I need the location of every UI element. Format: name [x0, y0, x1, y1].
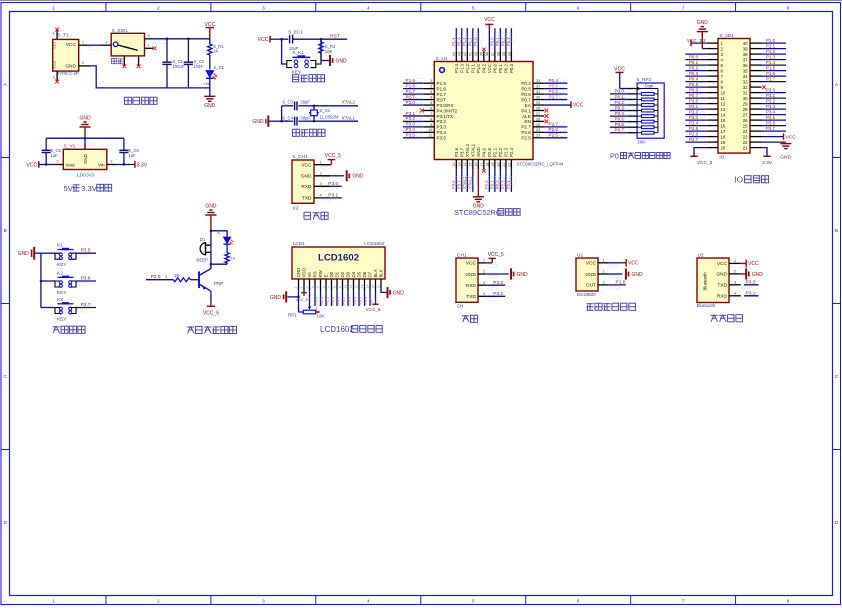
svg-text:3.3V: 3.3V	[81, 184, 98, 193]
caption 电源电路	[125, 97, 158, 104]
wire net P0.3 (pull-up)	[610, 105, 630, 110]
svg-text:P3.4: P3.4	[406, 127, 416, 132]
svg-text:4: 4	[734, 291, 736, 295]
SW1 bottom pins (no connect)	[122, 56, 140, 68]
wire LCD D5 net P0.5	[359, 290, 363, 306]
svg-text:XTAL2: XTAL2	[465, 143, 470, 157]
svg-text:P3.0: P3.0	[493, 280, 503, 286]
svg-text:ALE: ALE	[522, 114, 531, 119]
LCD pin 1	[294, 279, 299, 290]
wire P2.0 net	[146, 274, 173, 280]
svg-text:6: 6	[577, 599, 580, 604]
wire net P3.6 (JD1)	[762, 121, 787, 126]
svg-text:P0.3: P0.3	[348, 297, 352, 304]
svg-text:P2.0: P2.0	[484, 180, 489, 189]
svg-text:S_C4: S_C4	[282, 115, 293, 120]
svg-text:3: 3	[430, 90, 432, 94]
svg-text:TXD: TXD	[466, 294, 476, 300]
JD1 pin 7	[707, 75, 718, 77]
BT pin 4	[729, 291, 750, 300]
wire net P2.6 (JD1)	[685, 132, 707, 137]
svg-text:XTAL1: XTAL1	[467, 176, 472, 189]
wire net P3.6 (U1 bottom)	[451, 169, 460, 192]
svg-text:33: 33	[743, 79, 748, 84]
U1 pin 33	[533, 79, 544, 83]
wire SW1.3 to VCC rail	[153, 39, 210, 44]
LCD pin 7	[327, 279, 332, 290]
svg-text:P1.3: P1.3	[460, 63, 465, 73]
wire crystal left leg	[281, 106, 283, 122]
svg-text:14: 14	[463, 163, 467, 167]
U1 pin 12	[452, 160, 456, 170]
svg-text:2: 2	[483, 270, 485, 274]
svg-text:LCD1602: LCD1602	[318, 253, 359, 264]
capacitor S_EC1 10uF	[282, 29, 321, 51]
svg-text:P3.2: P3.2	[406, 116, 416, 121]
svg-text:21: 21	[502, 163, 506, 167]
JD1 pin 25	[750, 125, 762, 127]
caption LCD1602显示模块	[320, 325, 383, 334]
svg-text:XTAL2: XTAL2	[342, 100, 356, 105]
svg-text:D5: D5	[357, 271, 362, 277]
svg-text:P0.2: P0.2	[342, 297, 346, 304]
svg-text:RS: RS	[313, 271, 318, 277]
svg-text:3: 3	[147, 34, 149, 38]
svg-text:15: 15	[371, 284, 375, 288]
svg-text:P2.4: P2.4	[506, 180, 511, 189]
svg-text:P1.6: P1.6	[766, 71, 776, 76]
LCD pin 13	[360, 279, 365, 290]
wire net P1.1 (U1 top)	[467, 28, 476, 51]
U1 pin 25	[533, 123, 544, 127]
svg-text:1: 1	[147, 44, 149, 48]
wire key bus vertical	[40, 253, 42, 307]
svg-text:P2.7: P2.7	[549, 122, 559, 127]
svg-text:37: 37	[491, 52, 495, 56]
svg-text:P1.7: P1.7	[766, 77, 776, 82]
svg-text:STC89C52RC_LQFP44: STC89C52RC_LQFP44	[517, 161, 564, 166]
svg-text:P3.7: P3.7	[456, 180, 461, 189]
svg-text:P1.2: P1.2	[462, 37, 467, 46]
JD1 pin 1	[707, 42, 718, 44]
svg-text:1K: 1K	[213, 48, 218, 53]
svg-text:4: 4	[483, 292, 485, 296]
wire net P3.1 (JD1)	[762, 93, 787, 98]
svg-text:P2.5: P2.5	[521, 136, 531, 141]
svg-text:P0.5: P0.5	[615, 116, 625, 121]
JD1 pin 37	[750, 59, 762, 61]
svg-text:VCC: VCC	[484, 17, 495, 23]
svg-text:P0.4: P0.4	[615, 111, 625, 116]
svg-text:CH1: CH1	[457, 252, 467, 258]
JD1 pin 2	[707, 48, 718, 50]
U1 pin 32	[533, 85, 544, 89]
svg-text:P2.4: P2.4	[509, 147, 514, 157]
svg-text:P3.1: P3.1	[406, 111, 416, 116]
svg-text:P0.6: P0.6	[689, 88, 699, 93]
wire net P3.5 (JD1)	[762, 115, 787, 120]
wire net P1.5 (U1 left)	[403, 78, 423, 83]
svg-text:41: 41	[469, 52, 473, 56]
svg-text:VCC: VCC	[466, 261, 477, 267]
wire net P3.2 (U1 left)	[403, 116, 423, 121]
power VCC_5 (LCD pin2)	[296, 290, 308, 302]
svg-text:P1.5: P1.5	[437, 81, 447, 86]
wire net P0.3 (JD1)	[685, 71, 707, 76]
JD1 pin 21	[750, 147, 762, 149]
svg-text:GND: GND	[393, 291, 405, 297]
svg-text:P1.3: P1.3	[766, 55, 776, 60]
LCD pin 8	[333, 279, 338, 290]
svg-text:P3.7: P3.7	[460, 147, 465, 157]
JD1 pin 27	[750, 114, 762, 116]
wire bus to K2	[41, 280, 55, 282]
svg-text:24: 24	[536, 128, 540, 132]
U1 pin 21	[502, 160, 506, 170]
crystal S_X1 11.0592M	[309, 105, 339, 123]
svg-text:1: 1	[483, 259, 485, 263]
svg-text:GND: GND	[585, 272, 596, 278]
ground (LCD left)	[270, 290, 299, 303]
U1 top pin names	[454, 63, 514, 73]
wire net P2.0 (JD1)	[685, 99, 707, 104]
svg-text:P2.1: P2.1	[489, 180, 494, 189]
module LCD1 LCD1602	[292, 241, 385, 279]
LCD pin 10	[344, 279, 349, 290]
label 开关	[112, 58, 124, 63]
svg-text:D4: D4	[351, 271, 356, 277]
wire net P0.2 (JD1)	[685, 66, 707, 71]
wire net P2.3 (U1 bottom)	[500, 169, 509, 192]
svg-text:VCC_5: VCC_5	[488, 252, 504, 258]
CH1 pin 4	[478, 292, 497, 301]
wire net P0.6 (U1 right)	[544, 89, 567, 94]
svg-text:P0.5: P0.5	[521, 86, 531, 91]
svg-text:38: 38	[743, 52, 748, 57]
svg-text:14: 14	[721, 112, 726, 117]
svg-text:2: 2	[430, 85, 432, 89]
wire net P1.7 (JD1)	[762, 77, 787, 82]
JD1 pin 30	[750, 97, 762, 99]
capacitor S_C1 100uF	[162, 39, 184, 88]
svg-text:Bluetooth: Bluetooth	[697, 303, 716, 308]
svg-text:VCC: VCC	[487, 64, 492, 73]
RP1 resistor 1	[628, 93, 658, 96]
svg-text:21: 21	[743, 145, 748, 150]
svg-text:GND: GND	[752, 272, 764, 278]
svg-text:7: 7	[430, 112, 432, 116]
svg-text:GND: GND	[301, 174, 312, 180]
svg-text:1: 1	[603, 258, 605, 262]
svg-text:P1.1: P1.1	[766, 44, 776, 49]
ground (temp)	[608, 268, 643, 279]
svg-text:10K: 10K	[325, 49, 333, 54]
LCD pin 16	[377, 279, 382, 290]
svg-text:P1.5: P1.5	[766, 66, 776, 71]
SW1 pin 2	[102, 41, 112, 46]
wire net P2.3 (JD1)	[685, 115, 707, 120]
svg-text:CC1: CC1	[53, 42, 57, 49]
svg-text:D3: D3	[346, 271, 351, 277]
svg-text:KEY: KEY	[292, 70, 301, 75]
svg-text:40: 40	[743, 41, 748, 46]
svg-text:6: 6	[430, 106, 432, 110]
U1 pin 36	[496, 51, 500, 62]
svg-text:3: 3	[262, 599, 265, 604]
svg-text:D1: D1	[335, 271, 340, 277]
JD1 pin 15	[707, 119, 718, 121]
wire LCD RS net P2.0	[315, 290, 319, 306]
U1 pin 4	[423, 95, 434, 99]
svg-text:10K: 10K	[317, 314, 325, 319]
svg-text:1: 1	[52, 5, 55, 10]
svg-text:P1.7: P1.7	[406, 89, 416, 94]
push button K3	[55, 297, 76, 323]
SW1 pin 1 (no connect)	[145, 44, 157, 51]
wire net P1.4 (U1 top)	[451, 28, 460, 51]
net 3.3V output	[116, 161, 148, 168]
JD1 pin 32	[750, 86, 762, 88]
svg-text:P3.6: P3.6	[766, 121, 776, 126]
svg-text:P1.4: P1.4	[451, 37, 456, 46]
svg-text:12: 12	[452, 163, 456, 167]
U1 pin 28	[533, 106, 544, 110]
wire LCD D7 net P0.7	[370, 290, 374, 306]
svg-text:P4.3/INT2: P4.3/INT2	[437, 108, 458, 113]
JD1 pin 40	[750, 42, 762, 44]
DS18B20 pin 2	[598, 270, 619, 279]
wire net P1.3 (JD1)	[762, 55, 787, 60]
U1 pin 30	[533, 95, 544, 99]
svg-text:38: 38	[485, 52, 489, 56]
svg-text:Bluetooth: Bluetooth	[703, 272, 708, 291]
wire net P0.5 (JD1)	[685, 82, 707, 87]
ground (JD1 pin2)	[697, 20, 709, 48]
svg-text:P3.1/TX: P3.1/TX	[437, 114, 454, 119]
caption 复位电路	[292, 75, 324, 82]
svg-text:P1.3: P1.3	[456, 37, 461, 46]
svg-text:P0.0: P0.0	[493, 63, 498, 73]
CH1 pin 1	[314, 160, 331, 168]
U1 right pin names	[521, 81, 531, 141]
no-connect U1 ALE	[545, 114, 549, 118]
svg-text:P0.0: P0.0	[615, 89, 625, 94]
RP1 com pin	[628, 87, 658, 91]
svg-text:P0.7: P0.7	[615, 128, 625, 133]
svg-text:P0.5: P0.5	[359, 297, 363, 304]
svg-text:22: 22	[743, 140, 748, 145]
svg-text:P1.1: P1.1	[471, 63, 476, 73]
svg-text:IO: IO	[735, 176, 743, 185]
svg-text:10: 10	[428, 128, 432, 132]
U1 pin 37	[491, 51, 495, 62]
svg-text:P4.1: P4.1	[521, 108, 531, 113]
wire net P1.0 (JD1)	[762, 38, 787, 43]
svg-text:28: 28	[743, 107, 748, 112]
svg-text:P3.0: P3.0	[766, 88, 776, 93]
svg-text:P3.1: P3.1	[766, 93, 776, 98]
svg-text:RP1: RP1	[288, 313, 297, 318]
svg-text:P0.5: P0.5	[689, 82, 699, 87]
wire net P2.4 (JD1)	[685, 121, 707, 126]
wire net P2.2 (JD1)	[685, 110, 707, 115]
DS18B20 pin 1	[598, 258, 619, 267]
U1 pin 41	[469, 51, 473, 62]
resistor (LED branch)	[225, 253, 236, 265]
svg-text:P0.6: P0.6	[521, 92, 531, 97]
JD1 pin 11	[707, 97, 718, 99]
U1 pin 16	[474, 160, 478, 170]
U1 pin 10	[423, 128, 434, 132]
SW1 pin 3	[145, 34, 153, 39]
svg-text:P0.1: P0.1	[495, 37, 500, 46]
wire net P1.1 (JD1)	[762, 44, 787, 49]
svg-text:P0.6: P0.6	[364, 297, 368, 304]
svg-text:P0.7: P0.7	[521, 97, 531, 102]
svg-text:P0.3: P0.3	[509, 63, 514, 73]
svg-text:P0.4: P0.4	[521, 81, 531, 86]
svg-text:P1.5: P1.5	[406, 78, 416, 83]
svg-text:S_V1: S_V1	[64, 144, 76, 150]
no-connect U1 EN	[545, 120, 549, 124]
S_T1 bottom pin 3 (no connect)	[52, 71, 59, 84]
caption 晶振电路	[293, 129, 326, 136]
svg-text:29: 29	[536, 101, 540, 105]
svg-text:5: 5	[472, 5, 475, 10]
svg-text:20: 20	[721, 145, 726, 150]
svg-text:10K: 10K	[637, 140, 646, 145]
wire LCD D1 net P0.1	[337, 290, 341, 306]
svg-text:P3.1: P3.1	[328, 193, 338, 199]
svg-text:GND: GND	[352, 174, 364, 180]
wire net P0.7 (JD1)	[685, 93, 707, 98]
svg-text:S_X1: S_X1	[319, 108, 330, 113]
CH1 pin 2	[478, 270, 497, 279]
svg-text:S_RP1: S_RP1	[636, 77, 652, 83]
svg-text:12: 12	[721, 101, 726, 106]
no-connect U1 P4.2	[482, 48, 485, 51]
power VCC (temp)	[608, 259, 639, 267]
svg-text:23: 23	[743, 134, 748, 139]
svg-text:3.3V: 3.3V	[137, 162, 148, 168]
wire net P3.0 (U1 left)	[403, 100, 423, 105]
svg-text:P1.6: P1.6	[406, 83, 416, 88]
svg-text:IO: IO	[719, 154, 724, 159]
power VCC_5 (LCD backlight)	[366, 290, 381, 312]
ground (download)	[330, 170, 364, 181]
svg-text:GND: GND	[296, 268, 301, 278]
U1 pin 34	[507, 51, 511, 62]
svg-text:P3.0/RX: P3.0/RX	[437, 103, 454, 108]
caption 5V转3.3V电路	[64, 184, 112, 193]
svg-text:2: 2	[603, 270, 605, 274]
svg-text:P1.4: P1.4	[454, 63, 459, 73]
svg-text:OUT: OUT	[586, 283, 596, 289]
svg-text:5: 5	[472, 599, 475, 604]
svg-text:30pF: 30pF	[300, 100, 310, 105]
BT pin 3	[729, 280, 750, 289]
wire net XTAL1 (U1 bottom)	[467, 169, 476, 192]
svg-text:32: 32	[536, 85, 540, 89]
svg-text:31: 31	[743, 90, 748, 95]
wire net P0.7 (U1 right)	[544, 94, 567, 99]
svg-text:P1.0: P1.0	[616, 280, 626, 286]
wire P3.1 (bluetooth)	[744, 290, 759, 296]
wire net P2.7 (U1 right)	[544, 122, 567, 127]
connector S_JD1 IO header	[718, 33, 750, 159]
U1 pin 7	[423, 112, 434, 116]
svg-text:P3.1: P3.1	[493, 291, 503, 297]
svg-text:10: 10	[721, 90, 726, 95]
RP1 internal bus	[657, 89, 659, 133]
svg-text:11: 11	[349, 285, 353, 288]
svg-text:VCC: VCC	[66, 42, 77, 48]
wire net P0.6 (pull-up)	[610, 122, 630, 127]
svg-text:1uF: 1uF	[128, 153, 136, 158]
U1 pin 15	[469, 160, 473, 170]
svg-text:25: 25	[743, 123, 748, 128]
svg-text:4: 4	[430, 95, 432, 99]
svg-text:GND: GND	[65, 63, 76, 69]
svg-text:EN: EN	[524, 119, 530, 124]
svg-text:P0.4: P0.4	[549, 78, 559, 83]
svg-text:GND: GND	[252, 119, 264, 125]
svg-text:30: 30	[536, 95, 540, 99]
JD1 pin 20	[707, 147, 718, 149]
JD1 pin 8	[707, 81, 718, 83]
wire net P3.0 (JD1)	[762, 88, 787, 93]
svg-text:4: 4	[320, 194, 322, 198]
svg-text:GND: GND	[270, 295, 282, 301]
svg-text:3: 3	[603, 281, 605, 285]
JD1 pin 14	[707, 114, 718, 116]
svg-text:27: 27	[536, 112, 540, 116]
wire LCD E net P2.2	[326, 290, 330, 306]
svg-text:18: 18	[485, 163, 489, 167]
svg-text:15: 15	[721, 118, 726, 123]
push button K2	[55, 270, 76, 296]
svg-text:24: 24	[743, 129, 748, 134]
svg-text:BLA: BLA	[373, 269, 378, 277]
svg-text:19: 19	[491, 163, 495, 167]
svg-text:P2.0: P2.0	[315, 297, 319, 304]
svg-text:P3.2: P3.2	[437, 119, 447, 124]
svg-text:4: 4	[367, 599, 370, 604]
svg-text:P0.3: P0.3	[506, 37, 511, 46]
svg-text:P1.2: P1.2	[766, 49, 776, 54]
ground (serial)	[486, 268, 528, 279]
svg-text:3: 3	[262, 5, 265, 10]
U1 pin 8	[423, 117, 434, 121]
svg-text:S_CH1: S_CH1	[292, 154, 308, 160]
svg-text:12: 12	[355, 284, 359, 288]
ground (reset)	[321, 55, 347, 66]
switch S_SW1	[111, 28, 144, 56]
svg-text:GND: GND	[697, 20, 709, 26]
svg-text:44: 44	[452, 52, 456, 56]
wire net P0.1 (JD1)	[685, 60, 707, 65]
svg-text:P3.6: P3.6	[454, 147, 459, 157]
svg-text:VCC: VCC	[26, 162, 37, 168]
svg-text:4: 4	[52, 31, 54, 35]
JD1 pin 17	[707, 130, 718, 132]
RP1 resistor 3	[628, 104, 658, 107]
power VCC_5 (download)	[325, 153, 341, 165]
svg-text:35: 35	[502, 52, 506, 56]
ground (power circuit)	[204, 96, 216, 109]
svg-text:Com: Com	[645, 84, 654, 89]
svg-text:V0: V0	[307, 272, 312, 278]
